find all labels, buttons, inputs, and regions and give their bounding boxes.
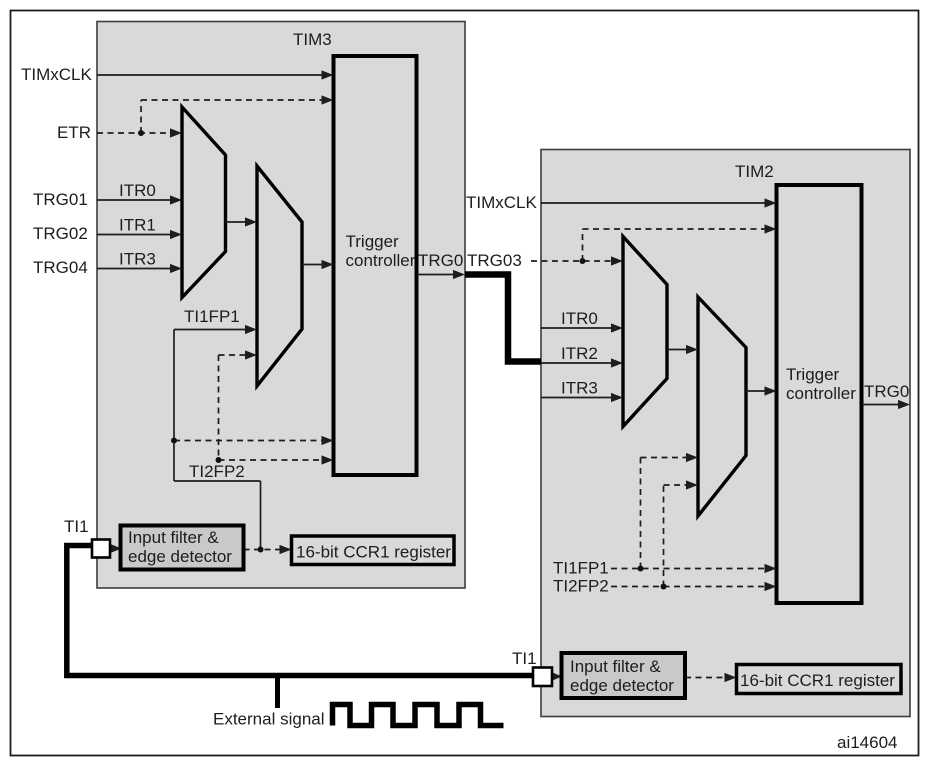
junction dot ETR (TIM3) bbox=[138, 130, 144, 136]
arrowhead TIMxCLK (TIM2) bbox=[765, 198, 777, 207]
TIM2 block bbox=[541, 150, 910, 717]
svg-text:ITR0: ITR0 bbox=[119, 181, 156, 200]
TI1 node square (TIM3) bbox=[92, 540, 110, 558]
svg-text:TIM2: TIM2 bbox=[735, 162, 774, 181]
wire mux M4 to trigger controller (TIM2) bbox=[746, 390, 767, 392]
arrowhead TI2FP2 into trigger controller (TIM3) bbox=[322, 455, 334, 464]
wire TI1FP1 dashed vertical (TIM2) bbox=[640, 458, 642, 569]
wire mux M3 to mux M4 (TIM2) bbox=[667, 349, 688, 351]
wire mux M1 to mux M2 (TIM3) bbox=[226, 221, 248, 223]
svg-text:ETR: ETR bbox=[57, 123, 91, 142]
arrowhead TI1 square to filter (TIM2) bbox=[551, 672, 562, 681]
mux M4 (TIM2) bbox=[698, 297, 746, 516]
arrowhead TI1FP1 into trigger controller (TIM2) bbox=[765, 564, 777, 573]
wire TI2FP2 dashed vertical (TIM2) bbox=[663, 485, 665, 587]
svg-text:controller: controller bbox=[346, 251, 416, 270]
svg-text:TRG02: TRG02 bbox=[33, 224, 88, 243]
wire TI2FP2 horizontal (TIM3) bbox=[174, 480, 261, 482]
svg-text:ITR2: ITR2 bbox=[561, 344, 598, 363]
svg-text:TI2FP2: TI2FP2 bbox=[553, 577, 609, 596]
wire TI1FP1 dashed to trigger controller (TIM3) bbox=[174, 440, 324, 442]
svg-text:TRG01: TRG01 bbox=[33, 190, 88, 209]
wire node to CCR1 junction (TIM3) bbox=[260, 481, 262, 550]
wire ITR3 (TIM2) bbox=[541, 397, 613, 399]
arrowhead mux M3 to mux M4 bbox=[686, 345, 698, 354]
svg-text:edge detector: edge detector bbox=[570, 676, 674, 695]
arrowhead TRG0 output (TIM3) bbox=[453, 270, 465, 279]
wire TI2FP2 dashed to trigger controller (TIM2) bbox=[611, 586, 767, 588]
mux M1 (TIM3) bbox=[182, 107, 226, 298]
arrowhead filter to CCR1 (TIM3) bbox=[280, 545, 292, 554]
arrowhead TRG0 output (TIM2) bbox=[898, 400, 910, 409]
svg-text:TRG0: TRG0 bbox=[418, 251, 463, 270]
wire mux M2 to trigger controller (TIM3) bbox=[302, 264, 324, 266]
svg-text:TI1: TI1 bbox=[64, 517, 89, 536]
svg-text:TI1FP1: TI1FP1 bbox=[553, 559, 609, 578]
svg-text:TI1: TI1 bbox=[512, 649, 537, 668]
junction dot CCR1 node (TIM3) bbox=[258, 547, 264, 553]
wire TI1FP1 dashed to mux M4 (TIM2) bbox=[641, 457, 689, 459]
wire ETR branch up dashed (TIM3) bbox=[140, 100, 142, 133]
arrowhead ITR3 into mux M3 bbox=[611, 393, 623, 402]
arrowhead TI1 square to filter (TIM3) bbox=[110, 544, 122, 553]
wire filter output dashed to CCR1 (TIM3) bbox=[244, 549, 283, 551]
arrowhead ITR0 into mux M3 bbox=[611, 323, 623, 332]
arrowhead TI2FP2 into trigger controller (TIM2) bbox=[765, 582, 777, 591]
arrowhead ITR1 into mux M1 bbox=[170, 230, 182, 239]
wire TRG0 output (TIM3) bbox=[417, 274, 455, 276]
wire TIMxCLK (TIM3) bbox=[97, 74, 323, 76]
wire TI2FP2 dashed to mux M2 (TIM3) bbox=[219, 354, 248, 356]
arrowhead ITR2 into mux M3 bbox=[611, 358, 623, 367]
arrowhead TRG03 dashed into trigger controller (TIM2) bbox=[765, 224, 777, 233]
arrowhead TIMxCLK (TIM3) bbox=[322, 70, 334, 79]
TI1 node square (TIM2) bbox=[533, 668, 552, 687]
arrowhead TI1FP1 into mux M2 bbox=[245, 325, 257, 334]
trigger controller U1 (TIM3) bbox=[334, 56, 417, 475]
junction dot TI1FP1 (TIM3) bbox=[171, 438, 177, 444]
wire filter output dashed to CCR1 (TIM2) bbox=[685, 677, 726, 679]
svg-text:ai14604: ai14604 bbox=[837, 733, 898, 752]
wire ITR2 (TIM2) bbox=[541, 362, 613, 364]
wire TI1FP1 to mux M2 (TIM3) bbox=[174, 329, 247, 331]
junction dot TI2FP2 (TIM3) bbox=[216, 457, 222, 463]
svg-text:External signal: External signal bbox=[213, 710, 325, 729]
input filter and edge detector box (TIM2) bbox=[562, 653, 686, 698]
svg-text:TIMxCLK: TIMxCLK bbox=[21, 65, 93, 84]
wire TRG0 output (TIM2) bbox=[862, 404, 900, 406]
svg-text:TRG04: TRG04 bbox=[33, 258, 88, 277]
arrowhead ITR3 into mux M1 bbox=[170, 264, 182, 273]
wire TRG03 branch up dashed (TIM2) bbox=[582, 229, 584, 261]
svg-text:edge detector: edge detector bbox=[128, 547, 232, 566]
trigger controller U2 (TIM2) bbox=[777, 185, 862, 603]
arrowhead TI2FP2 into mux M2 bbox=[245, 350, 257, 359]
wire ITR3 (TIM3) bbox=[97, 268, 172, 270]
svg-text:TIM3: TIM3 bbox=[293, 30, 332, 49]
svg-text:TI2FP2: TI2FP2 bbox=[189, 462, 245, 481]
wire TIMxCLK (TIM2) bbox=[541, 202, 766, 204]
svg-text:Trigger: Trigger bbox=[346, 232, 400, 251]
svg-text:Input filter &: Input filter & bbox=[128, 528, 219, 547]
arrowhead TI1FP1 into mux M4 bbox=[686, 453, 698, 462]
svg-text:ITR0: ITR0 bbox=[561, 309, 598, 328]
external signal square wave bbox=[333, 705, 504, 726]
svg-text:16-bit CCR1 register: 16-bit CCR1 register bbox=[296, 543, 451, 562]
wire TI2FP2 dashed to mux M4 (TIM2) bbox=[664, 484, 689, 486]
external signal stub wire bbox=[275, 676, 280, 709]
wire TI1FP1 vertical (TIM3) bbox=[173, 330, 175, 482]
wire TRG03 dashed to trigger controller (TIM2) bbox=[583, 228, 767, 230]
wire TI1FP1 dashed to trigger controller (TIM2) bbox=[611, 568, 767, 570]
arrowhead mux M1 to mux M2 bbox=[245, 217, 257, 226]
arrowhead ETR into mux M1 bbox=[170, 128, 182, 137]
svg-text:ITR3: ITR3 bbox=[561, 379, 598, 398]
arrowhead TI2FP2 into mux M4 bbox=[686, 480, 698, 489]
svg-text:TRG0: TRG0 bbox=[864, 382, 909, 401]
svg-text:Input filter &: Input filter & bbox=[570, 657, 661, 676]
svg-text:controller: controller bbox=[786, 384, 856, 403]
junction dot TI2FP2 (TIM2) bbox=[661, 584, 667, 590]
arrowhead TRG03 into mux M3 bbox=[611, 256, 623, 265]
svg-text:TRG03: TRG03 bbox=[467, 251, 522, 270]
wire ETR dashed to trigger controller (TIM3) bbox=[141, 99, 323, 101]
svg-text:Trigger: Trigger bbox=[786, 365, 840, 384]
arrowhead filter to CCR1 (TIM2) bbox=[725, 673, 737, 682]
svg-text:TIMxCLK: TIMxCLK bbox=[466, 193, 538, 212]
arrowhead ITR0 into mux M1 bbox=[170, 195, 182, 204]
arrowhead mux M4 to trigger controller (TIM2) bbox=[765, 386, 777, 395]
svg-text:ITR3: ITR3 bbox=[119, 250, 156, 269]
arrowhead ETR dashed into trigger controller (TIM3) bbox=[322, 95, 334, 104]
wire TI2FP2 dashed vertical (TIM3) bbox=[218, 355, 220, 460]
wire ITR0 (TIM2) bbox=[541, 327, 613, 329]
input filter and edge detector box (TIM3) bbox=[121, 526, 244, 570]
16-bit CCR1 register box (TIM3) bbox=[292, 536, 455, 565]
wire ETR dashed (TIM3) bbox=[97, 132, 172, 134]
mux M3 (TIM2) bbox=[623, 237, 667, 427]
TI1 thick wire (TIM3 input and external signal bus) bbox=[67, 546, 533, 676]
svg-text:TI1FP1: TI1FP1 bbox=[184, 307, 240, 326]
junction dot TI1FP1 (TIM2) bbox=[638, 566, 644, 572]
TRG03 thick wire TIM3 to TIM2 bbox=[465, 275, 541, 362]
svg-text:ITR1: ITR1 bbox=[119, 216, 156, 235]
arrowhead mux M2 to trigger controller (TIM3) bbox=[322, 260, 334, 269]
wire TI2FP2 dashed to trigger controller (TIM3) bbox=[219, 459, 325, 461]
TIM3 block bbox=[97, 22, 465, 589]
wire TRG03 dashed to mux M3 (TIM2) bbox=[531, 260, 613, 262]
junction dot TRG03 (TIM2) bbox=[580, 258, 586, 264]
wire ITR0 (TIM3) bbox=[97, 199, 172, 201]
wire ITR1 (TIM3) bbox=[97, 234, 172, 236]
svg-text:16-bit CCR1 register: 16-bit CCR1 register bbox=[740, 671, 895, 690]
16-bit CCR1 register box (TIM2) bbox=[737, 665, 902, 694]
mux M2 (TIM3) bbox=[257, 166, 302, 386]
arrowhead TI1FP1 into trigger controller (TIM3) bbox=[322, 436, 334, 445]
